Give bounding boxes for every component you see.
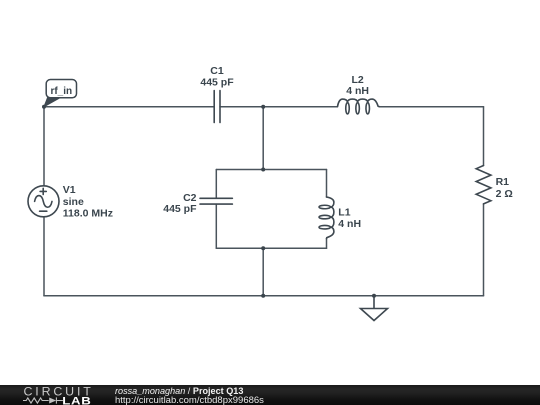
node top-middle junction <box>261 105 265 109</box>
ground <box>361 296 388 321</box>
wire left vertical upper (node to V1) <box>43 107 45 186</box>
capacitor C2 <box>200 198 232 204</box>
inductor L1 <box>319 197 334 239</box>
wire tank right vertical lower (L1 to bottom) <box>326 239 328 249</box>
svg-text:R1: R1 <box>496 176 510 188</box>
svg-text:118.0 MHz: 118.0 MHz <box>63 208 113 220</box>
wire tank bottom horizontal <box>216 247 326 249</box>
node tank-bottom junction <box>261 246 265 250</box>
wire top-right horizontal (L2 to corner) <box>379 106 483 108</box>
svg-text:sine: sine <box>63 196 84 208</box>
node bottom-middle junction <box>261 294 265 298</box>
wire top horizontal (C1 to L2) <box>220 106 338 108</box>
svg-text:C1: C1 <box>210 65 224 77</box>
wire tank left vertical lower (C2 to bottom) <box>215 204 217 248</box>
wire tank top horizontal <box>216 169 326 171</box>
wire tank right vertical upper (to L1) <box>326 170 328 198</box>
svg-text:445 pF: 445 pF <box>163 203 197 215</box>
wire tank left vertical upper (to C2) <box>215 170 217 199</box>
svg-text:LAB: LAB <box>62 395 91 405</box>
svg-text:445 pF: 445 pF <box>200 77 234 89</box>
wire bottom horizontal <box>44 295 484 297</box>
resistor R1 <box>476 166 491 204</box>
capacitor C1 <box>214 91 220 123</box>
CircuitLab logo <box>0 384 112 405</box>
voltage source V1 <box>28 186 59 217</box>
wire left vertical lower (V1 to bottom) <box>43 217 45 296</box>
svg-text:rf_in: rf_in <box>50 86 72 97</box>
inductor L2 <box>338 99 380 114</box>
svg-text:4 nH: 4 nH <box>338 218 361 230</box>
wire middle vertical upper (top wire to tank top) <box>262 107 264 170</box>
wire top-left horizontal (node rf_in to C1) <box>44 106 214 108</box>
wire middle vertical lower (tank bottom to bottom wire) <box>262 248 264 295</box>
wire right vertical lower (R1 to corner) <box>483 204 485 296</box>
svg-text:L1: L1 <box>338 206 350 218</box>
svg-text:4 nH: 4 nH <box>346 85 369 97</box>
node ground junction <box>372 294 376 298</box>
footer url text <box>115 395 264 405</box>
footer project text <box>115 386 243 396</box>
footer bar <box>0 385 540 405</box>
node rf_in junction <box>42 105 46 109</box>
svg-text:2 Ω: 2 Ω <box>496 188 513 200</box>
node tank-top junction <box>261 168 265 172</box>
svg-text:V1: V1 <box>63 184 76 196</box>
net flag rf_in <box>44 80 77 107</box>
wire right vertical upper (corner to R1) <box>483 107 485 166</box>
